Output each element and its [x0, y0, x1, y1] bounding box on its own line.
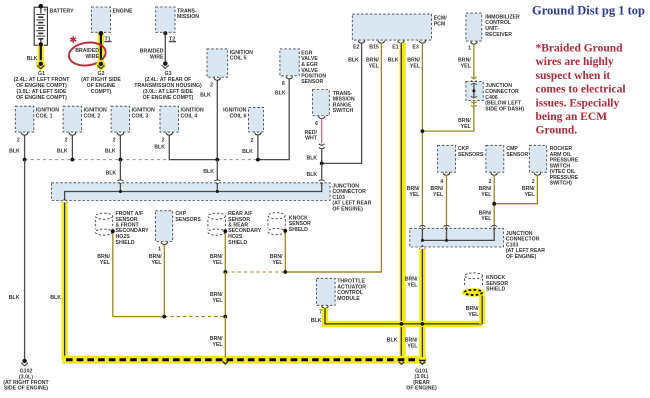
wire ignition coil 3 BLK [105, 135, 121, 160]
CMP sensor box [486, 145, 529, 172]
pin 2 ignition coil 3 [113, 133, 124, 144]
svg-text:YEL: YEL [151, 260, 162, 266]
transmission component box [156, 7, 200, 32]
junction connector C103 right box [410, 228, 545, 260]
svg-text:YEL: YEL [407, 343, 418, 349]
ground G101 entries [399, 362, 437, 392]
ignition coil 5 box [207, 49, 253, 77]
wire coil bus tap 2 BLK into C103 [203, 160, 217, 181]
svg-text:BLK: BLK [306, 155, 317, 161]
svg-text:BLK: BLK [50, 295, 61, 301]
terminal T1 [99, 31, 112, 42]
svg-text:WIRE: WIRE [85, 54, 99, 60]
svg-text:SIDE OF ENGINE): SIDE OF ENGINE) [4, 386, 48, 392]
svg-text:BLK: BLK [105, 171, 116, 177]
svg-text:MODULE: MODULE [337, 296, 360, 302]
svg-text:SIDE OF DASH): SIDE OF DASH) [485, 106, 524, 112]
svg-text:WHT: WHT [305, 136, 318, 142]
svg-text:COIL 3: COIL 3 [132, 113, 149, 119]
svg-text:COIL 5: COIL 5 [230, 56, 247, 62]
ignition coil 2 box [63, 106, 107, 132]
svg-text:YEL: YEL [433, 192, 444, 198]
node junction y316 a [162, 315, 166, 319]
svg-text:E2: E2 [353, 45, 359, 51]
svg-text:BLK: BLK [9, 295, 20, 301]
svg-text:+: + [43, 8, 47, 14]
node shield junction 1 [223, 270, 227, 274]
node E3-immobilizer junction [421, 129, 425, 133]
pin 2 CMP sensor [488, 173, 497, 185]
svg-text:PCM: PCM [434, 21, 446, 27]
svg-text:SHIELD: SHIELD [116, 240, 135, 246]
svg-text:COIL 4: COIL 4 [181, 113, 198, 119]
svg-text:*Braided Ground: *Braided Ground [536, 43, 624, 55]
svg-text:7: 7 [319, 309, 322, 315]
svg-text:COIL 1: COIL 1 [36, 113, 53, 119]
C103 left internal bus [65, 185, 322, 201]
svg-text:E1: E1 [392, 45, 398, 51]
wire EGR BLK to coil bus [258, 79, 289, 160]
wire BLK range switch to E2 node [306, 150, 321, 164]
pin B15 [369, 41, 384, 51]
wire throttle actuator braided BLK to G101 wires [311, 308, 482, 324]
ignition coil 1 box [15, 106, 59, 132]
svg-text:BLK: BLK [203, 169, 214, 175]
front A/F sensor and front secondary HO2S shield symbol [95, 211, 149, 246]
svg-text:BLK: BLK [9, 149, 20, 155]
wire CKP right BRN/YEL to C103 right [430, 175, 446, 228]
svg-text:Ground.: Ground. [536, 125, 578, 137]
pin 2 ignition coil 4 [162, 133, 173, 144]
wire CMP BRN/YEL [479, 175, 495, 228]
pin 6 transmission range switch [315, 116, 325, 127]
wire ignition coil 2 BLK [57, 135, 73, 160]
svg-text:B15: B15 [369, 45, 379, 51]
svg-text:YEL: YEL [272, 260, 283, 266]
svg-text:comes to electrical: comes to electrical [536, 84, 626, 96]
red ellipse highlight around BRAIDED WIRE [67, 40, 107, 68]
svg-text:COMPT): COMPT) [91, 89, 112, 95]
throttle actuator control module box [316, 278, 366, 305]
transmission range switch box [312, 90, 355, 116]
node CMP-rocker junction [492, 202, 496, 206]
svg-text:OF ENGINE): OF ENGINE) [332, 206, 363, 212]
svg-text:ENGINE: ENGINE [113, 8, 134, 14]
node throttle wire on E1 [400, 322, 404, 326]
pin 1 immobilizer [468, 42, 477, 52]
svg-text:SHIELD: SHIELD [486, 287, 505, 293]
svg-text:2: 2 [250, 138, 253, 144]
inline connector on range switch wire [319, 144, 325, 149]
wire immobilizer BRN/YEL to C406 [458, 44, 474, 80]
battery B1 [34, 4, 74, 47]
ground G1 (braided) [14, 60, 71, 101]
node junction y316 b [223, 315, 227, 319]
ignition coil 6 box [223, 107, 263, 131]
svg-text:2: 2 [162, 137, 165, 143]
svg-text:6: 6 [282, 81, 285, 87]
knock sensor shield symbol right [465, 273, 509, 293]
C103 left bottom exit [62, 198, 68, 203]
wire coil ground bus dashed segments [25, 159, 258, 161]
svg-text:OF ENGINE COMPT): OF ENGINE COMPT) [143, 95, 194, 101]
svg-text:6: 6 [315, 121, 318, 127]
svg-text:SENSOR: SENSOR [301, 79, 323, 85]
svg-text:OF ENGINE): OF ENGINE) [406, 386, 437, 392]
pin 7 throttle actuator [319, 306, 328, 316]
svg-text:SWITCH: SWITCH [333, 108, 354, 114]
rear A/F sensor and rear secondary HO2S shield symbol [208, 211, 262, 246]
svg-text:SHIELD: SHIELD [228, 240, 247, 246]
svg-text:SENSOR: SENSOR [506, 152, 528, 158]
ECM/PCM box [352, 14, 447, 40]
immobilizer control unit-receiver box [466, 13, 520, 41]
svg-text:SENSORS: SENSORS [458, 152, 484, 158]
node shield junction 2 [283, 270, 287, 274]
wire C406 BRN/YEL to node on E3 wire [422, 100, 476, 131]
svg-text:BLK: BLK [388, 58, 399, 64]
wire ignition coil 1 BLK [9, 135, 25, 160]
CKP sensors box left [155, 211, 201, 242]
pin 4 CKP sensors right [440, 173, 449, 185]
svg-text:BLK: BLK [242, 149, 253, 155]
terminal T2 [163, 31, 176, 42]
svg-text:2: 2 [113, 137, 116, 143]
C103 right pin entries [419, 225, 497, 230]
wire combined BRN/YEL to braided bus [210, 317, 228, 364]
ground G102 [3, 359, 49, 392]
svg-text:SENSORS: SENSORS [175, 217, 201, 223]
wire ignition coil 4 BLK to bus [154, 135, 217, 160]
svg-text:MISSION: MISSION [177, 14, 199, 20]
wire E2 BLK to transmission range switch node [324, 43, 362, 163]
svg-text:wires are highly: wires are highly [536, 56, 614, 68]
svg-text:E3: E3 [412, 45, 418, 51]
svg-text:BLK: BLK [200, 92, 211, 98]
svg-text:BLK: BLK [154, 144, 165, 150]
svg-text:YEL: YEL [461, 124, 472, 130]
wire braided ground bus G102-G101 [62, 356, 426, 364]
svg-text:YEL: YEL [409, 192, 420, 198]
svg-text:WIRE: WIRE [150, 54, 164, 60]
wire combined shield BRN/YEL down [210, 272, 225, 317]
svg-text:being an ECM: being an ECM [536, 111, 608, 123]
wire B15 BRN/YEL to shield junction node [288, 43, 381, 272]
svg-text:YEL: YEL [212, 298, 223, 304]
wire braided BLK from C103 left to ground bus [50, 203, 64, 360]
svg-text:BLK: BLK [348, 58, 359, 64]
wire rocker arm BRN/YEL to CMP node [494, 175, 537, 204]
pin 2 ignition coil 2 [65, 133, 76, 144]
svg-text:1: 1 [158, 247, 161, 253]
svg-text:BLK: BLK [27, 56, 38, 62]
pin 1 CKP sensors [158, 242, 167, 253]
svg-text:BLK: BLK [387, 338, 398, 344]
svg-text:2: 2 [210, 83, 213, 89]
wire coil bus tap BLK to G102 [9, 160, 25, 359]
svg-text:OF ENGINE): OF ENGINE) [506, 254, 537, 260]
C103 right bottom exit [419, 245, 425, 250]
pin 2 ignition coil 1 [17, 133, 28, 144]
rocker arm oil pressure switch box [529, 145, 579, 186]
svg-text:YEL: YEL [524, 192, 535, 198]
pin 2 ignition coil 6 [250, 132, 261, 144]
svg-text:YEL: YEL [468, 312, 479, 318]
wire ignition coil 5 BLK down through bus [200, 80, 217, 160]
svg-text:BLK: BLK [311, 318, 322, 324]
wire E1 braided BLK down to G101 bus [387, 43, 403, 360]
svg-text:YEL: YEL [212, 260, 223, 266]
svg-text:2: 2 [65, 137, 68, 143]
svg-text:BLK: BLK [275, 90, 286, 96]
wire T1 to G2 (braided) [75, 31, 103, 64]
svg-text:2: 2 [488, 179, 491, 185]
pin E3 [412, 41, 425, 51]
svg-text:issues. Especially: issues. Especially [536, 97, 620, 109]
svg-text:SWITCH): SWITCH) [550, 181, 573, 187]
wire coil bus tap 1 BLK into C103 [105, 160, 120, 181]
pin 6 EGR [282, 76, 293, 87]
pin 2 rocker arm oil pressure switch [532, 173, 541, 185]
svg-text:SHIELD: SHIELD [289, 227, 308, 233]
ground G3 [134, 61, 202, 100]
svg-text:1: 1 [468, 45, 471, 51]
svg-text:2: 2 [17, 137, 20, 143]
ignition coil 4 box [160, 106, 204, 132]
svg-text:YEL: YEL [461, 63, 472, 69]
svg-text:BATTERY: BATTERY [50, 8, 75, 14]
svg-text:YEL: YEL [212, 342, 223, 348]
wire knock shield right braided to throttle wire [466, 296, 482, 324]
svg-text:4: 4 [440, 179, 443, 185]
red asterisk marker [70, 36, 76, 43]
svg-text:BLK: BLK [306, 172, 317, 178]
svg-text:YEL: YEL [410, 63, 421, 69]
svg-text:2: 2 [532, 179, 535, 185]
svg-text:YEL: YEL [481, 216, 492, 222]
junction connector C103 left box [52, 183, 372, 213]
wire knock sensor shield BRN/YEL [270, 229, 287, 272]
wire RED/WHT transmission range switch [305, 118, 322, 143]
knock sensor shield symbol left [268, 213, 311, 235]
wire braided BLK from C103 right to ground bus [405, 249, 423, 360]
wire junction line y316 [113, 316, 226, 318]
junction connector C406 [466, 77, 525, 113]
node throttle wire on C103 right wire [421, 322, 425, 326]
ground G2 (braided) [81, 60, 121, 95]
pin E1 [392, 41, 404, 51]
wire ignition coil 6 BLK [242, 135, 258, 160]
engine component box [91, 7, 133, 32]
svg-text:YEL: YEL [369, 63, 380, 69]
C103 right internal bus [421, 230, 494, 242]
wire front A/F shield BRN/YEL [97, 229, 114, 316]
svg-text:COIL 2: COIL 2 [84, 113, 101, 119]
wire E3 BRN/YEL down to junction connector C103 right [407, 43, 423, 228]
ignition coil 3 box [111, 106, 155, 132]
wire T2 to G3 BLK [140, 32, 166, 62]
wire CKP sensors BRN/YEL [149, 244, 164, 316]
CKP sensors box right [438, 145, 484, 172]
wire rear A/F shield BRN/YEL [210, 229, 227, 272]
svg-text:suspect when it: suspect when it [536, 70, 611, 82]
svg-text:BLK: BLK [57, 149, 68, 155]
knock sensor shield braided ellipse [462, 288, 485, 297]
svg-text:Ground Dist pg 1 top: Ground Dist pg 1 top [532, 4, 645, 18]
C103 left pin entries [117, 180, 325, 185]
svg-text:COIL 6: COIL 6 [230, 113, 247, 119]
svg-text:BLK: BLK [105, 149, 116, 155]
node coil bus junctions [23, 158, 260, 162]
wire battery to G1 (braided BLK) [27, 42, 43, 64]
svg-text:YEL: YEL [407, 282, 418, 288]
wire BLK node into C103 left [306, 163, 321, 180]
svg-text:YEL: YEL [100, 260, 111, 266]
pin 2 ignition coil 5 [210, 78, 220, 89]
wire shield junction line y272 [225, 271, 381, 273]
node range switch / E2 junction [320, 162, 324, 166]
pin E2 [353, 41, 365, 51]
svg-text:RECEIVER: RECEIVER [485, 32, 512, 38]
svg-text:YEL: YEL [481, 192, 492, 198]
svg-text:OF ENGINE COMPT): OF ENGINE COMPT) [16, 95, 67, 101]
EGR valve and EGR valve position sensor box [280, 49, 326, 85]
